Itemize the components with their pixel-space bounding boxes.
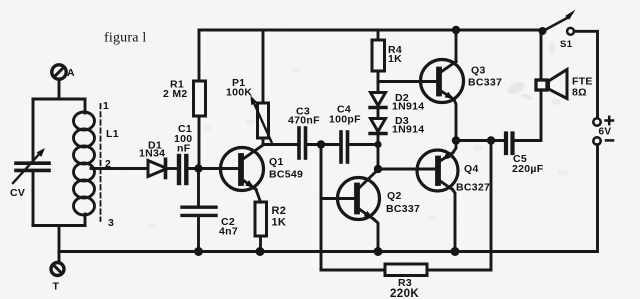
- potentiometer P1 100K: [226, 30, 272, 145]
- wire output node to C5: [456, 139, 504, 142]
- wire Q2 base lead: [321, 197, 354, 200]
- node Q3 collector on rail: [452, 26, 460, 34]
- node Q2 emitter ground: [374, 247, 383, 256]
- capacitor C2 4n7: [182, 172, 238, 252]
- svg-text:BC549: BC549: [269, 169, 303, 181]
- wire node to Q4 base: [378, 168, 436, 171]
- wire D2 to D3: [377, 108, 380, 119]
- capacitor C4 100pF: [329, 104, 361, 163]
- wire tap2 to D1: [91, 167, 148, 170]
- terminal A: [52, 65, 75, 79]
- svg-text:Q2: Q2: [387, 190, 402, 202]
- svg-text:R2: R2: [272, 205, 287, 217]
- transistor Q4 BC327: [417, 141, 490, 252]
- svg-text:1K: 1K: [388, 53, 402, 65]
- transistor Q2 BC337: [338, 172, 421, 252]
- speaker FTE 8ohm: [536, 70, 593, 99]
- svg-text:Q4: Q4: [464, 163, 479, 175]
- node C2 ground: [194, 247, 203, 256]
- diode D3 1N914: [370, 115, 424, 136]
- svg-text:8Ω: 8Ω: [572, 87, 587, 99]
- svg-text:BC327: BC327: [456, 182, 490, 194]
- node C1/R1/C2/Q1 junction: [194, 164, 202, 172]
- svg-text:470nF: 470nF: [288, 115, 320, 127]
- svg-text:6V: 6V: [599, 127, 612, 138]
- wire Q1 collector to C3: [263, 143, 297, 146]
- svg-text:1N34: 1N34: [139, 148, 165, 160]
- node Q2 collector / Q4 base: [374, 165, 382, 173]
- node R2 ground: [256, 247, 265, 256]
- wire D1 to C1: [166, 167, 179, 170]
- svg-text:100pF: 100pF: [329, 114, 361, 126]
- node C4/diode junction: [374, 141, 381, 148]
- wire tank top: [33, 98, 85, 101]
- battery terminal minus: [593, 137, 613, 144]
- svg-text:Q3: Q3: [471, 65, 486, 77]
- inductor L1: [74, 99, 119, 229]
- svg-text:nF: nF: [177, 143, 191, 155]
- svg-text:figura l: figura l: [104, 31, 146, 46]
- wire speaker top to rail: [540, 30, 543, 78]
- battery terminal plus: [593, 117, 613, 138]
- node Q3/Q4 emitter output: [452, 136, 460, 144]
- wire tank bottom to ground rail: [58, 226, 61, 263]
- svg-text:1: 1: [103, 100, 109, 112]
- diode D1 1N34: [139, 140, 167, 178]
- node C3/C4 junction: [317, 140, 325, 148]
- scan smudges: [146, 42, 569, 229]
- svg-text:Q1: Q1: [269, 156, 284, 168]
- wire tank bottom: [33, 224, 85, 227]
- resistor R4 1K: [372, 30, 402, 92]
- wire C1 to Q1 base: [189, 167, 239, 170]
- transistor Q3 BC337: [421, 30, 503, 141]
- wire battery minus to ground rail: [59, 145, 598, 252]
- svg-text:1N914: 1N914: [392, 101, 424, 113]
- svg-text:220K: 220K: [390, 288, 419, 299]
- svg-text:4n7: 4n7: [219, 226, 238, 238]
- node R3 tap on output: [487, 136, 495, 144]
- diode D2 1N914: [370, 92, 424, 113]
- svg-text:A: A: [67, 67, 75, 79]
- svg-text:T: T: [53, 281, 60, 293]
- switch S1: [539, 10, 576, 51]
- svg-text:1N914: 1N914: [392, 124, 424, 136]
- resistor R1 2M2: [163, 30, 206, 165]
- svg-text:2 M2: 2 M2: [163, 88, 188, 100]
- wire C4 to diode string: [348, 143, 379, 146]
- wire tank left vertical upper: [32, 99, 35, 161]
- svg-text:100K: 100K: [226, 87, 252, 99]
- svg-text:BC337: BC337: [468, 77, 502, 89]
- resistor R3 220K feedback: [321, 141, 491, 299]
- wire C3 to C4: [306, 143, 340, 146]
- transistor Q1 BC549: [221, 145, 304, 202]
- capacitor C1 100nF: [174, 123, 192, 183]
- terminal T: [51, 263, 64, 293]
- svg-text:3: 3: [108, 217, 114, 229]
- wire R4 to Q3 base: [378, 80, 437, 83]
- capacitor C3 470nF: [288, 106, 320, 159]
- wire tank left vertical lower: [32, 172, 35, 226]
- svg-text:L1: L1: [106, 128, 119, 140]
- wire C3/C4 node down to Q2 base and R3: [320, 145, 323, 271]
- node Q4 collector ground: [451, 247, 460, 256]
- top rail: [199, 29, 542, 32]
- svg-text:CV: CV: [10, 187, 25, 199]
- capacitor CV (variable): [10, 148, 49, 199]
- svg-text:1K: 1K: [272, 216, 287, 228]
- svg-text:220µF: 220µF: [512, 163, 544, 175]
- capacitor C5 220uF: [506, 134, 544, 176]
- wire switch to battery plus: [574, 31, 597, 118]
- resistor R2 1K: [255, 202, 286, 252]
- wire D3 down through C4 node to Q2 collector node: [377, 134, 380, 170]
- wire antenna to tank top: [58, 79, 61, 99]
- svg-text:BC337: BC337: [386, 203, 420, 215]
- svg-text:S1: S1: [560, 39, 573, 50]
- wire C5 to speaker bottom: [515, 90, 542, 140]
